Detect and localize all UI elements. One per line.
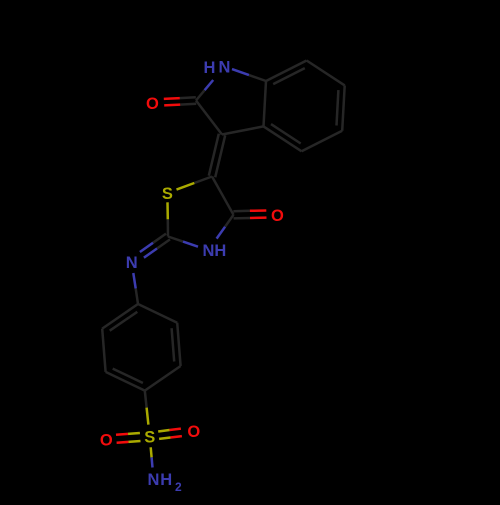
svg-text:S: S (144, 428, 155, 446)
svg-text:H: H (214, 242, 226, 260)
svg-text:O: O (271, 207, 284, 225)
svg-text:O: O (187, 423, 200, 441)
svg-text:2: 2 (175, 480, 182, 494)
svg-text:N: N (148, 471, 160, 489)
svg-text:N: N (126, 254, 138, 272)
svg-text:N: N (219, 59, 231, 77)
svg-text:H: H (204, 59, 216, 77)
svg-text:S: S (162, 185, 173, 203)
svg-text:O: O (146, 95, 159, 113)
svg-text:O: O (100, 432, 113, 450)
svg-text:H: H (160, 471, 172, 489)
svg-text:N: N (202, 242, 214, 260)
